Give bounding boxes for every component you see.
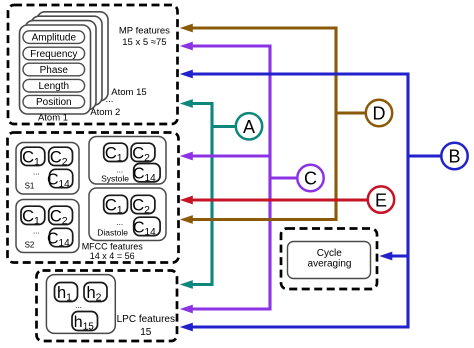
pill Frequency: [23, 47, 85, 60]
svg-text:15 x 5 ≈75: 15 x 5 ≈75: [122, 37, 166, 48]
pill Diastole C2: [131, 195, 155, 213]
arrow purple into LPC: [180, 305, 193, 314]
wire purple stub to C: [270, 176, 298, 179]
pill Systole C1: [104, 143, 128, 161]
node B: [441, 143, 467, 169]
pill Position: [23, 95, 85, 108]
arrow blue into MP: [180, 70, 193, 79]
pill Phase: [23, 63, 85, 76]
svg-text:Frequency: Frequency: [30, 49, 77, 60]
svg-text:...: ...: [33, 168, 40, 177]
dashed box Cycle averaging: [281, 229, 377, 290]
wire teal main: [193, 104, 236, 285]
node A: [236, 113, 262, 139]
arrow blue into cycle averaging: [379, 252, 392, 261]
arrow teal into MP: [180, 99, 193, 108]
pill S1 C1: [21, 147, 45, 165]
box S2: [16, 200, 79, 253]
svg-text:...: ...: [116, 218, 123, 227]
svg-text:Atom 15: Atom 15: [111, 87, 146, 98]
pill S2 C14: [50, 228, 73, 246]
svg-text:Diastole: Diastole: [97, 228, 128, 238]
svg-text:S2: S2: [25, 241, 35, 250]
svg-text:...: ...: [33, 227, 40, 236]
pill S1 C2: [49, 147, 73, 165]
svg-text:D: D: [373, 104, 386, 124]
pill Diastole C14: [134, 217, 160, 235]
arrow brown into MFCC: [180, 215, 193, 224]
pill Amplitude: [23, 31, 85, 44]
wire purple main: [193, 46, 299, 309]
pill Length: [23, 79, 85, 92]
arrow purple into MP: [180, 42, 193, 51]
atom stack layer Atom 15: [37, 12, 108, 101]
svg-text:Phase: Phase: [40, 65, 69, 76]
svg-text:Atom 2: Atom 2: [90, 107, 120, 118]
pill Systole C2: [131, 143, 155, 161]
dashed box MP features: [8, 5, 178, 124]
atom stack layer Atom 1: [20, 25, 91, 114]
svg-text:LPC features: LPC features: [117, 314, 175, 325]
svg-text:14 x 4 = 56: 14 x 4 = 56: [90, 251, 135, 261]
pill h1: [55, 283, 78, 302]
node E: [368, 186, 394, 212]
wire purple branch arrow MFCC: [193, 154, 271, 157]
svg-text:15: 15: [140, 327, 152, 338]
wire blue stub to B: [408, 154, 441, 157]
atom stack layer Atom 2: [25, 21, 96, 110]
svg-text:E: E: [375, 190, 387, 210]
pill S2 C1: [21, 206, 45, 224]
svg-text:A: A: [243, 117, 255, 137]
wire blue branch cycle: [392, 254, 409, 257]
atom stack layer 3: [31, 16, 102, 105]
pill S2 C2: [49, 206, 73, 224]
arrow red into MFCC: [180, 196, 193, 205]
box Diastole: [89, 188, 166, 241]
arrow brown into MP: [180, 24, 193, 33]
svg-text:S1: S1: [25, 181, 35, 190]
box Cycle averaging inner: [288, 242, 371, 279]
svg-text:Systole: Systole: [101, 174, 129, 184]
svg-text:Length: Length: [39, 81, 70, 92]
wire brown stub to D: [336, 111, 367, 114]
svg-text:Atom 1: Atom 1: [38, 112, 68, 123]
arrow teal into LPC: [180, 280, 193, 289]
node D: [366, 100, 392, 126]
pill Systole C14: [134, 164, 160, 182]
wire red from E: [193, 198, 369, 201]
arrow purple into MFCC: [180, 152, 193, 161]
dashed box LPC features: [37, 271, 178, 342]
box LPC inner: [46, 275, 115, 334]
node C: [297, 165, 323, 191]
svg-text:...: ...: [75, 301, 82, 310]
svg-text:B: B: [448, 147, 460, 167]
pill h15: [72, 312, 98, 331]
dashed box MFCC features: [8, 133, 179, 263]
wire blue main: [193, 74, 441, 327]
svg-text:MP features: MP features: [119, 26, 170, 37]
wire teal stub to A: [212, 125, 236, 128]
pill Diastole C1: [104, 195, 128, 213]
svg-text:Cycle: Cycle: [317, 248, 342, 259]
box S1: [16, 143, 79, 195]
svg-text:Amplitude: Amplitude: [32, 32, 77, 43]
svg-text:Position: Position: [36, 97, 72, 108]
wire brown main: [193, 28, 367, 220]
pill S1 C14: [50, 169, 73, 187]
box Systole: [89, 137, 166, 185]
pill h2: [84, 283, 107, 302]
arrow blue into LPC: [180, 323, 193, 332]
svg-text:C: C: [304, 169, 317, 189]
svg-text:averaging: averaging: [308, 259, 352, 270]
